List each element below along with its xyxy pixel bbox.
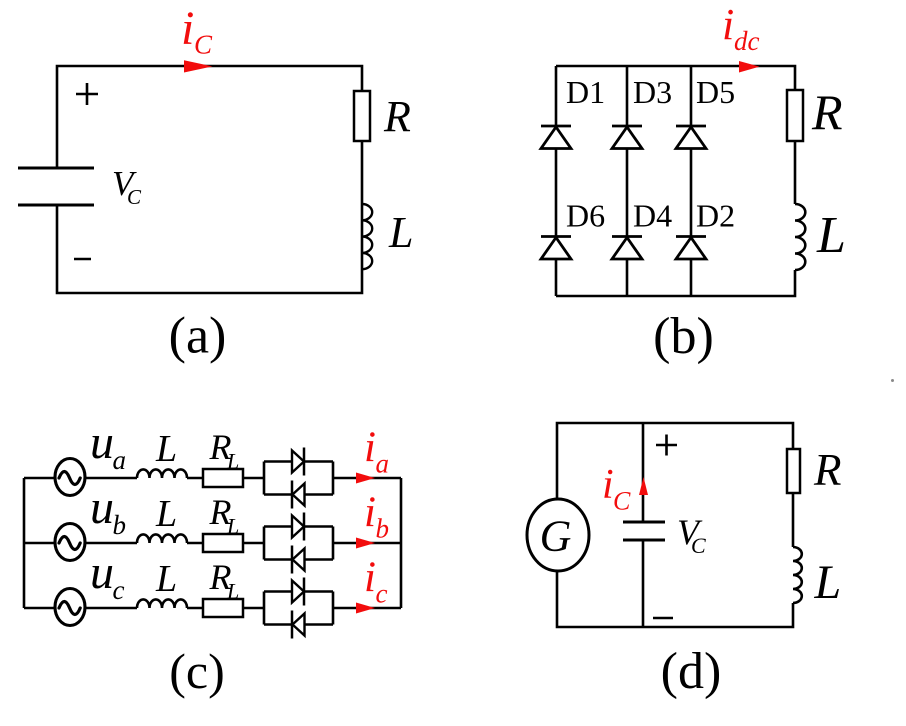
svg-text:c: c xyxy=(376,579,388,609)
svg-text:i: i xyxy=(364,424,376,471)
svg-text:i: i xyxy=(722,0,734,49)
svg-text:L: L xyxy=(226,579,239,604)
svg-text:C: C xyxy=(127,185,142,209)
svg-text:D4: D4 xyxy=(633,198,672,234)
svg-text:i: i xyxy=(364,489,376,536)
svg-text:i: i xyxy=(602,462,614,508)
svg-text:D1: D1 xyxy=(566,74,605,110)
svg-text:L: L xyxy=(226,514,239,539)
svg-text:b: b xyxy=(113,510,127,540)
svg-text:i: i xyxy=(181,2,194,55)
svg-text:b: b xyxy=(376,514,390,544)
svg-text:L: L xyxy=(814,556,842,609)
svg-text:L: L xyxy=(816,207,846,264)
svg-text:L: L xyxy=(226,449,239,474)
svg-text:R: R xyxy=(811,84,843,140)
svg-text:C: C xyxy=(194,30,213,60)
svg-text:G: G xyxy=(540,512,572,561)
svg-text:L: L xyxy=(155,428,177,470)
svg-text:C: C xyxy=(613,487,631,516)
svg-text:c: c xyxy=(113,575,125,605)
svg-text:C: C xyxy=(691,533,706,558)
svg-text:u: u xyxy=(90,416,114,469)
svg-text:(b): (b) xyxy=(653,308,714,365)
svg-text:i: i xyxy=(364,554,376,601)
svg-text:R: R xyxy=(383,92,411,141)
svg-text:D5: D5 xyxy=(696,74,735,110)
svg-text:dc: dc xyxy=(734,26,760,56)
svg-text:(c): (c) xyxy=(169,643,225,699)
svg-text:a: a xyxy=(376,449,390,479)
svg-text:(d): (d) xyxy=(661,643,722,700)
svg-text:R: R xyxy=(813,445,842,495)
svg-text:L: L xyxy=(155,558,177,600)
svg-text:D6: D6 xyxy=(566,198,605,234)
svg-text:a: a xyxy=(113,445,127,475)
svg-text:L: L xyxy=(155,493,177,535)
svg-text:D3: D3 xyxy=(633,74,672,110)
svg-text:u: u xyxy=(90,481,114,534)
svg-text:(a): (a) xyxy=(169,308,227,365)
svg-text:u: u xyxy=(90,546,114,599)
svg-text:D2: D2 xyxy=(696,198,735,234)
svg-text:L: L xyxy=(388,208,413,257)
